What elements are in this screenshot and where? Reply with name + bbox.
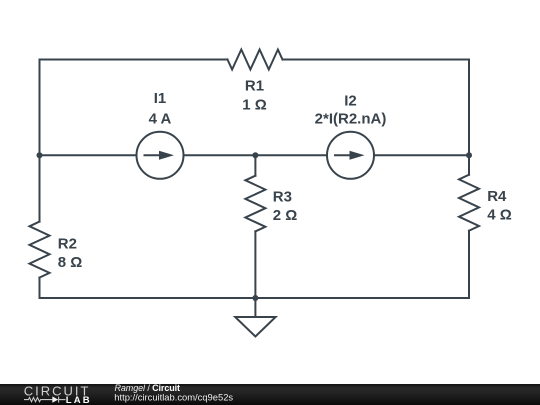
wire node B to R3 [254, 155, 256, 175]
current source I2 (dependent) [327, 132, 374, 179]
footer bar [0, 384, 540, 405]
svg-text:R1: R1 [245, 78, 264, 95]
svg-text:http://circuitlab.com/cq9e52s: http://circuitlab.com/cq9e52s [114, 392, 233, 403]
label R3 / 2 Ω [273, 189, 298, 224]
wire I2 to node C [374, 154, 469, 156]
footer title: Ramgel / Circuit [115, 383, 181, 393]
label I2 / 2*I(R2.nA) [315, 93, 387, 128]
label R1 / 1 Ω [242, 78, 267, 114]
label I1 / 4 A [149, 90, 172, 127]
node D junction dot [252, 295, 258, 301]
label R2 / 8 Ω [58, 235, 83, 271]
wire R1 to top-right corner to node C [283, 60, 470, 156]
svg-text:I2: I2 [344, 93, 357, 110]
wire R3 to node D [254, 231, 256, 298]
ground [235, 298, 275, 337]
svg-text:LAB: LAB [66, 395, 92, 405]
resistor R3 [245, 176, 265, 232]
svg-text:4 A: 4 A [149, 110, 172, 127]
svg-text:4 Ω: 4 Ω [487, 206, 512, 223]
node B junction dot [252, 152, 258, 158]
wire node A to I1 [40, 154, 137, 156]
svg-text:2*I(R2.nA): 2*I(R2.nA) [315, 111, 387, 128]
node A junction dot [37, 152, 43, 158]
current source I1 [137, 132, 184, 179]
wire node A to top-left corner to R1 [40, 60, 228, 156]
wire node A to R2 [39, 155, 41, 221]
wire I1 to I2 through node B [184, 154, 328, 156]
svg-text:8 Ω: 8 Ω [58, 254, 83, 271]
svg-text:R3: R3 [273, 189, 292, 206]
wire R2 to bottom-left corner to node D [40, 278, 256, 298]
label R4 / 4 Ω [487, 188, 512, 223]
resistor R1 [228, 50, 283, 70]
svg-text:2 Ω: 2 Ω [273, 207, 298, 224]
svg-text:R4: R4 [487, 188, 507, 205]
wire R4 to bottom-right corner to node D [255, 231, 469, 298]
svg-text:R2: R2 [58, 235, 77, 252]
svg-text:I1: I1 [154, 90, 167, 107]
svg-text:1 Ω: 1 Ω [242, 97, 267, 114]
footer url: http circuitlab address [114, 392, 233, 403]
CircuitLab logo [24, 384, 92, 405]
resistor R4 [459, 175, 479, 231]
wire node C to R4 [468, 155, 470, 174]
resistor R2 [30, 222, 50, 278]
node C junction dot [466, 152, 472, 158]
